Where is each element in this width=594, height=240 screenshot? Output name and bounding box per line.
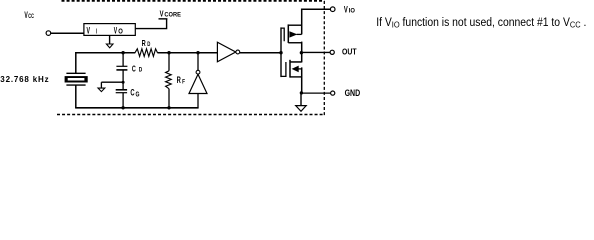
svg-text:V: V [160, 8, 164, 18]
resistor RD [135, 49, 158, 57]
svg-text:CC: CC [28, 13, 34, 20]
transistor Q2 body arrow [292, 66, 299, 73]
op-amp U2 oscillator inverter bubble [196, 70, 200, 74]
dashed IC boundary bottom edge [57, 114, 324, 116]
svg-text:F: F [182, 78, 185, 85]
ground regulator [109, 36, 111, 45]
transistor Q2 drain [290, 61, 302, 63]
svg-text:CORE: CORE [164, 12, 181, 19]
svg-text:R: R [142, 38, 146, 48]
svg-text:R: R [177, 75, 182, 85]
svg-text:IO: IO [349, 8, 355, 15]
wire RF top [168, 53, 170, 71]
node RF bottom junction [167, 106, 170, 109]
wire ground tap [101, 81, 123, 83]
svg-text:O: O [118, 28, 123, 35]
transistor Q2 gate [281, 62, 286, 76]
transistor Q2 source [290, 76, 302, 78]
svg-text:C: C [132, 64, 136, 74]
capacitor CD [116, 65, 127, 67]
node tap junction [122, 81, 125, 84]
wire OUT [302, 51, 331, 53]
terminal VCORE T-bar [159, 18, 168, 20]
node gate junction [279, 51, 282, 54]
svg-text:If VIO function is not used, c: If VIO function is not used, connect #1 … [376, 17, 586, 30]
wire buffer output to gate bus [240, 52, 281, 54]
wire Q2 rail to GND node [301, 67, 303, 93]
wire CD column [122, 53, 124, 66]
wire Q1 drain rail to VIO [302, 9, 331, 34]
svg-text:V: V [24, 10, 27, 20]
svg-text:G: G [136, 91, 140, 98]
svg-text:V: V [87, 26, 91, 37]
dashed IC boundary right edge [323, 1, 325, 115]
transistor Q1 drain [288, 24, 301, 26]
svg-text:D: D [147, 41, 150, 48]
wire crystal branch top [75, 52, 77, 74]
wire top rail left [75, 52, 135, 54]
svg-text:D: D [139, 66, 143, 73]
svg-text:V: V [344, 4, 348, 14]
svg-text:32.768 kHz: 32.768 kHz [0, 75, 48, 84]
wire inverter input stub [197, 94, 199, 108]
dashed IC boundary top edge [62, 0, 325, 2]
transistor Q2 channel [289, 60, 291, 78]
wire inverter output column [197, 53, 199, 71]
node OUT junction [300, 51, 303, 54]
svg-text:C: C [130, 88, 135, 98]
transistor Q1 body arrow [289, 31, 297, 37]
wire bottom rail [75, 107, 198, 109]
transistor Q1 source [288, 42, 301, 44]
svg-text:GND: GND [345, 88, 361, 98]
wire regulator output to VCORE [136, 19, 167, 29]
wire between CD and CG [122, 70, 124, 90]
wire RF bottom [168, 89, 170, 108]
svg-text:OUT: OUT [342, 46, 357, 56]
wire crystal branch bottom [75, 85, 77, 108]
wire top rail right of RD [157, 52, 217, 54]
regulator U1 box [84, 24, 135, 36]
wire CG to bottom rail [122, 93, 124, 108]
ground output stage [300, 93, 302, 106]
ground mid-cap [100, 82, 102, 88]
capacitor CG [116, 89, 127, 91]
crystal X1 [66, 72, 85, 74]
wire GND [302, 92, 331, 94]
svg-text:V: V [114, 26, 118, 37]
op-amp U3 buffer inverter [217, 42, 235, 62]
terminal VIO [330, 7, 335, 12]
op-amp U3 output bubble [236, 50, 240, 54]
terminal VCC [46, 31, 51, 36]
terminal OUT [330, 50, 334, 54]
node CG bottom junction [121, 106, 124, 109]
op-amp U2 oscillator inverter [189, 74, 207, 93]
terminal GND [331, 91, 335, 95]
wire OUT node to Q2 drain [301, 53, 303, 63]
node inverter output junction [196, 51, 199, 54]
transistor Q1 channel [287, 24, 289, 43]
node GND junction [300, 91, 303, 94]
resistor RF [166, 71, 172, 89]
wire gate bus [280, 27, 282, 77]
node CD top junction [121, 51, 124, 54]
node RF top junction [167, 51, 170, 54]
wire Q1 source to OUT node [301, 42, 303, 53]
svg-text:I: I [96, 29, 97, 36]
wire VCC to regulator [51, 32, 84, 34]
transistor Q1 gate [281, 28, 284, 41]
